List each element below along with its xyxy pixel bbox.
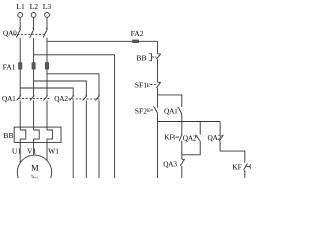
svg-text:KF: KF (232, 162, 242, 171)
svg-text:M: M (31, 164, 39, 173)
timer contact KF delay arc (173, 135, 176, 139)
thermal relay BB element 2 (34, 130, 40, 142)
svg-text:QA2′: QA2′ (208, 133, 224, 142)
contactor QA1 pole 1 (17, 95, 21, 101)
wire tap L2 to QA2 phase2 (34, 81, 87, 96)
timer contact KF2 blade (244, 164, 248, 170)
thermal relay BB element 3 (47, 130, 53, 142)
breaker QA0 pole 1 (16, 28, 20, 38)
fuse FA2 (133, 40, 139, 43)
thermal contact BB release bracket (149, 54, 151, 61)
timer contact KF link dash (175, 136, 179, 138)
svg-text:SF2: SF2 (135, 106, 147, 115)
contactor QA2 pole 2 (83, 95, 87, 101)
contactor QA1 link dashed (19, 97, 51, 99)
svg-text:QA2: QA2 (54, 94, 68, 103)
wire L2 QA0-FA1 (33, 38, 35, 63)
svg-text:QA1: QA1 (164, 106, 178, 115)
wire QA2 NC branch lower (182, 141, 200, 155)
svg-text:BB: BB (136, 53, 146, 62)
breaker QA0 pole 2 (30, 28, 34, 38)
contactor QA2 pole 3 (95, 95, 99, 101)
wire SF1-branch (157, 88, 159, 108)
thermal relay BB box (14, 127, 61, 142)
start button SF2 link dashed (150, 109, 154, 111)
motor M1 circle (17, 155, 51, 189)
stop button SF1 NC blade (156, 82, 161, 87)
aux contact QA2 NC blade (196, 135, 201, 142)
contactor QA2 pole 1 (70, 95, 74, 101)
stop button SF1 link dashed (150, 84, 156, 86)
wire main line to bottom (157, 122, 159, 179)
contact QA3 NC blade (180, 159, 185, 165)
wire control return from L2 (34, 55, 115, 178)
timer contact KF2 delay arc (249, 165, 252, 169)
contactor QA2 link dashed (69, 98, 102, 100)
terminal circle L2 (31, 13, 36, 18)
timer contact KF2 link dash (246, 165, 250, 167)
svg-text:L3: L3 (43, 2, 52, 11)
wire V1 to motor (33, 142, 35, 155)
start button SF2 NO blade (153, 106, 157, 113)
svg-text:3~: 3~ (31, 174, 39, 178)
wire L1 QA1-BB (19, 100, 21, 130)
wire L2 stub (33, 17, 35, 28)
wire BB-SF1 (157, 59, 159, 82)
breaker QA0 pole 3 (43, 28, 47, 38)
wire QA2 phase3 down (98, 100, 100, 178)
wire SF2 down (157, 113, 159, 121)
wire junction row (158, 121, 221, 123)
aux contact QA2 seal blade (219, 135, 223, 141)
wire branch to QA1 aux (158, 95, 182, 107)
wire QA2 NC branch upper (199, 122, 201, 135)
thermal contact BB link dashed (152, 56, 156, 58)
aux contact QA1 NO blade (178, 107, 182, 114)
wire W1 to motor (46, 142, 48, 160)
wire L3 stub (46, 17, 48, 28)
contactor QA1 pole 2 (30, 95, 34, 101)
wire L1 QA0-FA1 (19, 38, 21, 63)
svg-text:E: E (147, 108, 151, 114)
wire L3 FA1-QA1 (46, 69, 48, 96)
fuse FA1 pole 1 (19, 63, 22, 69)
wire KF2 down (244, 170, 246, 178)
wire L3 QA0-FA1 (46, 38, 48, 63)
wire L3 QA1-BB (46, 100, 48, 130)
wire QA3 down (181, 166, 183, 178)
contactor QA1 pole 3 (43, 95, 47, 101)
svg-text:E: E (147, 83, 151, 89)
svg-text:QA0: QA0 (3, 28, 17, 37)
svg-text:W1: W1 (48, 146, 59, 155)
wire QA2 phase1 down (72, 100, 74, 178)
wire U1 to motor (19, 142, 21, 162)
wire tap L1 to QA2 phase1 (20, 88, 73, 96)
wire QA2 seal branch lower (220, 141, 245, 163)
svg-text:SF1: SF1 (135, 81, 147, 90)
wire control feed from L3 (47, 40, 158, 42)
timer contact KF blade (179, 135, 182, 141)
wire QA2 seal branch upper (219, 122, 221, 137)
wire KF branch upper (181, 122, 183, 136)
thermal contact BB NC blade (156, 54, 161, 59)
svg-text:QA1: QA1 (2, 94, 16, 103)
wire tap L3 to QA2 phase3 (47, 74, 99, 96)
wire KF to QA3 contact (181, 141, 183, 160)
wire control main down to BB contact (157, 41, 159, 54)
thermal relay BB element 1 (20, 130, 26, 142)
wire L1 stub (19, 17, 21, 28)
fuse FA1 pole 3 (45, 63, 48, 69)
terminal circle L3 (45, 13, 50, 18)
svg-text:L1: L1 (16, 2, 25, 11)
wire QA2 phase2 down (85, 100, 87, 178)
breaker QA0 link dashed (14, 33, 46, 35)
svg-text:FA1: FA1 (3, 63, 16, 72)
svg-text:V1: V1 (27, 146, 36, 155)
svg-text:QA3: QA3 (163, 159, 177, 168)
fuse FA1 pole 2 (32, 63, 35, 69)
svg-text:FA2: FA2 (131, 29, 144, 38)
wire L1 FA1-QA1 (19, 69, 21, 96)
wire QA1 aux down (181, 114, 183, 122)
wire L2 FA1-QA1 (33, 69, 35, 96)
terminal circle L1 (18, 13, 23, 18)
svg-text:BB: BB (3, 131, 13, 140)
svg-text:L2: L2 (30, 2, 39, 11)
svg-text:KF: KF (164, 133, 173, 142)
wire L2 QA1-BB (33, 100, 35, 130)
